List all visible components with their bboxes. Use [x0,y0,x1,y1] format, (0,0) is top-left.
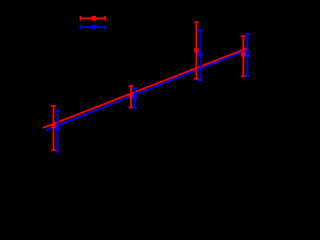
blue marker point 3 [198,52,202,56]
legend blue marker [91,25,96,30]
red errorbar point 1 [51,106,56,150]
red marker point 1 [51,124,55,128]
legend blue sample [81,25,106,30]
blue errorbar point 3 [198,30,203,80]
blue marker point 4 [245,53,249,57]
red errorbar point 2 [129,86,134,108]
blue marker point 2 [133,95,137,99]
legend red marker [92,16,97,21]
red errorbar point 4 [241,36,246,76]
blue marker point 1 [55,127,59,131]
blue errorbar point 2 [133,89,138,108]
legend red sample [81,16,106,21]
red marker point 3 [194,48,198,52]
blue fit line [46,49,249,130]
red errorbar point 3 [194,22,199,79]
red marker point 2 [129,94,133,98]
blue errorbar point 1 [55,111,60,152]
blue errorbar point 4 [245,34,250,76]
red marker point 4 [241,52,245,56]
red fit line [43,48,249,128]
